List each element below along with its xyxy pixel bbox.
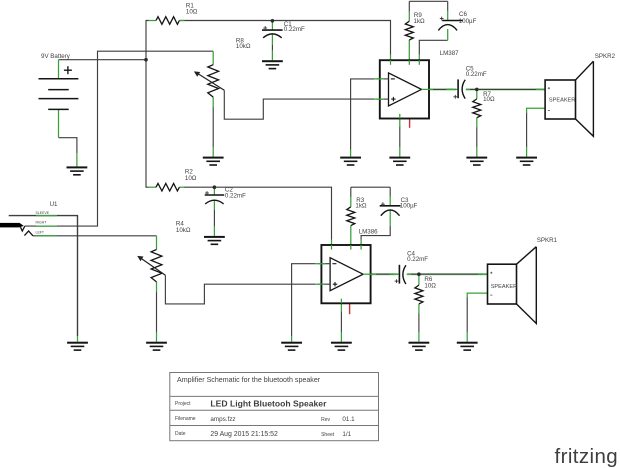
svg-text:1kΩ: 1kΩ: [414, 18, 426, 25]
svg-text:10Ω: 10Ω: [424, 282, 436, 289]
svg-text:10Ω: 10Ω: [185, 175, 197, 182]
svg-text:0.22mF: 0.22mF: [225, 192, 246, 199]
svg-text:Project: Project: [175, 401, 191, 407]
svg-text:fritzing: fritzing: [555, 445, 619, 468]
svg-text:SPEAKER: SPEAKER: [549, 98, 575, 104]
svg-text:amps.fzz: amps.fzz: [210, 416, 235, 423]
svg-text:1kΩ: 1kΩ: [355, 203, 367, 210]
svg-text:RIGHT: RIGHT: [36, 221, 48, 225]
svg-text:0.22mF: 0.22mF: [407, 256, 428, 263]
svg-text:Filename: Filename: [175, 416, 196, 422]
svg-text:1/1: 1/1: [342, 431, 351, 438]
svg-text:LED Light Bluetooh Speaker: LED Light Bluetooh Speaker: [210, 399, 327, 409]
svg-text:10Ω: 10Ω: [483, 96, 495, 103]
svg-text:9V Battery: 9V Battery: [41, 53, 71, 60]
svg-text:U1: U1: [50, 201, 58, 208]
svg-text:Amplifier Schematic for the bl: Amplifier Schematic for the bluetooth sp…: [177, 376, 321, 384]
svg-text:01.1: 01.1: [342, 416, 355, 423]
svg-text:10kΩ: 10kΩ: [236, 43, 251, 50]
svg-text:100µF: 100µF: [400, 203, 418, 210]
svg-text:Date: Date: [175, 431, 186, 437]
svg-text:SPKR2: SPKR2: [595, 53, 616, 60]
svg-text:100µF: 100µF: [459, 18, 477, 25]
svg-text:0.22mF: 0.22mF: [466, 71, 487, 78]
svg-text:SPEAKER: SPEAKER: [491, 284, 517, 290]
svg-text:10Ω: 10Ω: [186, 8, 198, 15]
svg-text:29 Aug 2015 21:15:52: 29 Aug 2015 21:15:52: [210, 431, 278, 438]
svg-text:Rev: Rev: [321, 417, 330, 423]
svg-text:SLEEVE: SLEEVE: [36, 211, 50, 215]
svg-text:Sheet: Sheet: [321, 432, 335, 438]
svg-text:LM386: LM386: [359, 228, 378, 235]
svg-text:10kΩ: 10kΩ: [176, 227, 191, 234]
svg-text:LEFT: LEFT: [36, 230, 45, 234]
svg-text:SPKR1: SPKR1: [537, 237, 558, 244]
svg-text:0.22mF: 0.22mF: [284, 26, 305, 33]
svg-text:LM387: LM387: [440, 50, 459, 57]
